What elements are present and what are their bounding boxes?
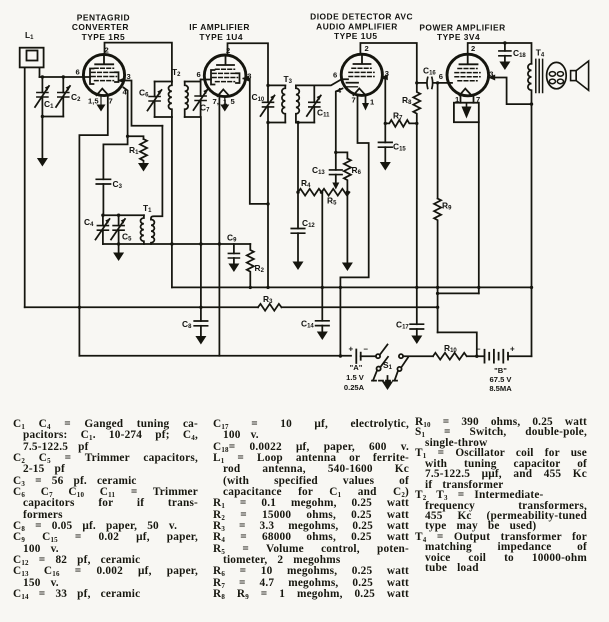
- svg-text:C8: C8: [182, 319, 192, 330]
- wire: C17 stem: [416, 329, 418, 336]
- wire: C8 stem: [200, 326, 202, 336]
- label R9: [442, 201, 452, 212]
- ground below C15: [380, 162, 391, 171]
- wire: T2 secondary top rail to V2 pin 6: [185, 80, 211, 82]
- ground below R1: [138, 163, 149, 172]
- svg-text:R6: R6: [352, 165, 362, 176]
- box arrow: [462, 107, 472, 119]
- ground below R5: [342, 263, 353, 272]
- wire: AVC node to R6: [336, 152, 348, 158]
- svg-text:TYPE 1U5: TYPE 1U5: [334, 31, 378, 41]
- svg-text:C5: C5: [122, 232, 132, 243]
- capacitor C11 (trimmer): [307, 85, 322, 122]
- tube V3 grid dashes: [349, 68, 374, 76]
- node: C7 drop crosses oscillator rail: [199, 242, 202, 245]
- oscillator transformer T1 secondary coil: [151, 220, 154, 245]
- svg-text:R1: R1: [129, 145, 139, 156]
- label T2: [172, 67, 181, 78]
- node: C18 tap: [503, 41, 506, 44]
- wire: V4 pin2 riser and rail to T4: [468, 43, 532, 64]
- svg-text:C16: C16: [423, 66, 436, 77]
- svg-text:1: 1: [370, 98, 375, 107]
- node: stub left junction: [436, 292, 439, 295]
- svg-text:C15: C15: [393, 142, 406, 153]
- switch S1 blade 2: [381, 357, 388, 367]
- node: R7 left junction: [384, 122, 387, 125]
- wire: L1 right lead to grid wire: [39, 67, 41, 77]
- svg-text:"A": "A": [350, 363, 363, 372]
- svg-text:CONVERTER: CONVERTER: [72, 22, 129, 32]
- node: right rail on bus A: [530, 286, 533, 289]
- tube V1 grid dashes: [92, 68, 117, 80]
- node: filament return on bus A: [339, 286, 342, 289]
- V4 filament connection box: [454, 103, 479, 123]
- node: C1 top junction: [41, 75, 44, 78]
- capacitor C8: [194, 321, 207, 326]
- label C8: [182, 319, 192, 330]
- tube V2 plate bar: [217, 55, 234, 65]
- switch S1 pole 2 contact 4: [397, 367, 401, 371]
- node: R4 left junction: [296, 191, 299, 194]
- tube V1 plate bar: [95, 55, 113, 65]
- ground below V1: [97, 105, 106, 112]
- label R1: [129, 145, 139, 156]
- tube V3 diode lead: [345, 86, 358, 88]
- node: filament return joins bottom rail: [339, 354, 342, 357]
- wire: V2 filament ground stem: [224, 97, 226, 105]
- wire: ground stub: [118, 244, 120, 253]
- label C3: [113, 179, 123, 190]
- resistor R5 (volume control): [322, 189, 350, 196]
- svg-text:6: 6: [333, 70, 337, 79]
- wire: C14 stem: [321, 326, 323, 332]
- svg-text:6: 6: [439, 72, 443, 81]
- tube V1 pin labels: [76, 45, 131, 105]
- svg-text:"B": "B": [494, 366, 507, 375]
- label R7: [393, 111, 403, 122]
- label C6: [139, 88, 149, 99]
- svg-text:TYPE 1U4: TYPE 1U4: [199, 32, 243, 42]
- node: R7 right junction: [415, 122, 418, 125]
- svg-text:1.5 V: 1.5 V: [346, 373, 365, 382]
- resistor R1: [140, 139, 147, 162]
- switch S1 pole 2 contact 3: [377, 367, 381, 371]
- wire: V3 pin3 to R7: [383, 77, 386, 123]
- svg-text:R7: R7: [393, 111, 403, 122]
- node: T3 primary bottom: [266, 121, 269, 124]
- node: C2 top junction: [62, 75, 65, 78]
- resistor R2: [247, 244, 254, 287]
- transformer T2 primary coil: [168, 82, 171, 118]
- ground below C12: [293, 262, 304, 271]
- tube V4 plate bar: [460, 54, 478, 64]
- parts list column 3: [415, 417, 587, 574]
- bus B continues to R9 line: [282, 306, 438, 308]
- coupling wire with C16 to V4 pin 6: [417, 82, 452, 84]
- ground below C18: [499, 62, 510, 71]
- battery A minus sign: [364, 345, 369, 354]
- label battery B: [489, 366, 512, 393]
- node: R4 R5 junction: [320, 191, 323, 194]
- tube V2 1U4 envelope: [204, 55, 246, 97]
- svg-text:7,: 7,: [213, 97, 219, 106]
- node: C5 top: [117, 214, 120, 217]
- node: C1 bottom junction: [41, 115, 44, 118]
- wire: V2 pin3 to T3 drop: [244, 79, 269, 204]
- node: bus B end: [436, 306, 439, 309]
- wire: C12 stem: [297, 233, 299, 261]
- bottom rail to battery A: [79, 355, 351, 357]
- wire: V4 filament leads into box: [461, 95, 474, 103]
- label C18: [513, 48, 526, 59]
- label C1: [44, 99, 54, 110]
- svg-text:R9: R9: [442, 201, 452, 212]
- capacitor C4 (variable): [96, 215, 111, 244]
- node: C17 line on bus A: [415, 286, 418, 289]
- capacitor C13: [330, 152, 343, 182]
- T4 secondary / voice coil loop: [547, 62, 567, 88]
- svg-text:2: 2: [365, 44, 369, 53]
- arrowhead into V2 pin3: [242, 76, 249, 82]
- wire: stub joining box lead and R9 line: [438, 292, 479, 294]
- tube V3 filament arrow stem: [365, 95, 367, 103]
- capacitor C1 (variable, ganged): [35, 77, 50, 117]
- label R6: [352, 165, 362, 176]
- wire: T3 secondary bottom rail: [296, 122, 314, 124]
- wire: C12 branch below R4 left: [297, 192, 299, 228]
- label C5: [122, 232, 132, 243]
- switch S1 ground stem: [387, 376, 389, 382]
- wire: C1 bottom down to ground: [41, 117, 43, 159]
- svg-text:S1: S1: [383, 360, 393, 371]
- node: C16 junction: [415, 81, 418, 84]
- wire: battery A to switch contact: [361, 355, 376, 357]
- label R5: [327, 196, 337, 207]
- label C17: [396, 320, 409, 331]
- svg-text:0.25A: 0.25A: [344, 383, 365, 392]
- switch S1 link arms: [373, 371, 398, 381]
- wire: T3 secondary top rail to V3 pin 6: [296, 79, 348, 85]
- tube V4 3V4 envelope: [447, 54, 489, 96]
- capacitor C16 plates: [427, 77, 433, 88]
- svg-text:+: +: [510, 345, 515, 354]
- wire: V1 pin3 to T1 secondary feed: [119, 81, 162, 126]
- arrowhead into V4 pin3: [488, 75, 495, 81]
- tube V1 1R5 envelope: [83, 54, 124, 95]
- ground below C9: [228, 264, 239, 273]
- label battery A: [344, 363, 365, 392]
- tube V3 filament chevron: [354, 88, 366, 95]
- tube V3 plate bar: [354, 54, 371, 64]
- svg-text:C10: C10: [252, 92, 265, 103]
- label T3: [284, 74, 293, 85]
- box arrow stem: [466, 104, 468, 110]
- label R8: [402, 95, 412, 106]
- tube V1 filament chevron: [97, 89, 109, 96]
- capacitor C5 (variable): [111, 215, 126, 244]
- wire: L1 left lead down the left rail: [24, 67, 26, 307]
- battery A plates: [356, 350, 360, 364]
- speaker driver: [571, 71, 577, 81]
- capacitor C2 (variable, ganged): [56, 77, 71, 117]
- label R2: [255, 263, 265, 274]
- label T4: [536, 48, 545, 59]
- svg-text:R2: R2: [255, 263, 265, 274]
- node: pin4 junction: [126, 135, 129, 138]
- tube V1 grid bracket left: [90, 69, 94, 85]
- switch S1 blade 1: [380, 345, 388, 355]
- switch S1 dashed link: [372, 380, 398, 382]
- node: AVC junction: [334, 151, 337, 154]
- ground below C1 C2: [37, 158, 48, 167]
- resistor R3: [258, 304, 282, 311]
- node: V2 pin7 drop crosses oscillator rail: [218, 242, 221, 245]
- wire: grid wire to pin 6 of V1: [40, 76, 91, 78]
- wire: switch to R10: [403, 355, 433, 357]
- wire: V1 filament ground stem: [100, 95, 102, 104]
- wire: C15 stem: [384, 147, 386, 162]
- node: step joins battery row: [475, 355, 478, 358]
- tube V3 filament arrow: [362, 103, 369, 111]
- svg-text:C7: C7: [200, 103, 210, 114]
- node: C14 line on bus A: [321, 286, 324, 289]
- svg-text:R4: R4: [301, 178, 311, 189]
- antenna L1 inner loop: [27, 51, 38, 61]
- wire: C15 branch: [384, 123, 386, 142]
- capacitor C9: [228, 244, 239, 264]
- svg-text:6: 6: [197, 70, 201, 79]
- capacitor C18: [499, 43, 511, 62]
- wire: volume junction down to C14: [321, 192, 324, 321]
- wire: C3 to oscillator top rail: [102, 184, 104, 215]
- voice coil turns: [549, 72, 563, 84]
- svg-text:8.5MA: 8.5MA: [489, 384, 512, 393]
- heading: POWER AMPLIFIER TYPE 3V4: [419, 22, 505, 42]
- wire: T2 secondary bottom rail: [185, 116, 201, 118]
- tube V2 grid bracket right: [236, 73, 240, 83]
- svg-text:T3: T3: [284, 74, 293, 85]
- wire: V4 pin3 loop under C18 to T4 bottom: [490, 78, 532, 105]
- wire: T2 primary bottom drop to bus A: [171, 117, 173, 287]
- capacitor C10 (trimmer) on riser line: [261, 95, 276, 116]
- wiper arrow onto R5: [332, 183, 339, 190]
- oscillator transformer T1 primary coil: [140, 215, 143, 244]
- svg-text:2: 2: [471, 44, 475, 53]
- ground below oscillator rail: [113, 253, 124, 262]
- label C16: [423, 66, 436, 77]
- wire: pin4 junction down to C3 branch: [103, 136, 127, 179]
- svg-text:C12: C12: [302, 218, 315, 229]
- tube V4 pin labels: [439, 44, 494, 104]
- wire: V3 pin7 filament return to battery A minus: [340, 96, 368, 356]
- svg-text:IF AMPLIFIER: IF AMPLIFIER: [189, 22, 250, 32]
- svg-text:AUDIO AMPLIFIER: AUDIO AMPLIFIER: [316, 22, 398, 32]
- switch S1 contact 1: [376, 354, 380, 358]
- svg-text:3: 3: [127, 72, 131, 81]
- wire: R8 line down to C17: [416, 123, 418, 324]
- battery B plates: [485, 350, 509, 363]
- wire: R5 right down to ground: [346, 192, 348, 262]
- heading: DIODE DETECTOR AVC AUDIO AMPLIFIER TYPE 1U5: [310, 12, 413, 42]
- wire: V2 pin2 riser and B+ rail to T3: [228, 43, 269, 102]
- svg-text:6: 6: [76, 68, 80, 77]
- svg-text:T1: T1: [143, 203, 152, 214]
- resistor R9: [434, 199, 441, 333]
- wire: T1 secondary top to feed line: [151, 126, 162, 220]
- transformer T2 secondary coil: [185, 82, 188, 118]
- wire: T3 secondary drop to R4: [297, 123, 299, 193]
- tube V2 filament chevron: [218, 89, 230, 96]
- resistor R7: [385, 120, 417, 127]
- svg-text:C9: C9: [227, 233, 237, 244]
- node: T3 primary top: [266, 84, 269, 87]
- wire: C2 bottom to C1 bottom: [42, 116, 63, 118]
- label C11: [317, 108, 330, 119]
- svg-text:–: –: [364, 345, 369, 354]
- node: R9 line on bus A: [436, 286, 439, 289]
- arrowhead into V1 pin3: [118, 78, 125, 84]
- svg-text:DIODE DETECTOR AVC: DIODE DETECTOR AVC: [310, 12, 413, 22]
- battery B plus sign: [510, 345, 515, 354]
- node: bus B left drop junction: [78, 306, 81, 309]
- node: R5 right junction: [346, 191, 349, 194]
- label S1: [383, 360, 393, 371]
- output transformer T4 primary coil: [528, 64, 532, 104]
- svg-text:C17: C17: [396, 320, 409, 331]
- svg-text:5: 5: [231, 97, 236, 106]
- capacitor C17: [410, 324, 423, 329]
- label R3: [263, 294, 273, 305]
- tube V3 diode plate bar: [347, 82, 359, 84]
- tube V3 1U5 envelope: [341, 54, 382, 95]
- resistor R8: [413, 83, 420, 124]
- arrowhead into V3 pin3: [381, 74, 388, 80]
- ground below S1: [382, 382, 393, 391]
- node: C10 line on bus A: [266, 286, 269, 289]
- node: R2 bottom on bus A: [249, 286, 252, 289]
- transformer T3 primary coil: [282, 85, 285, 122]
- tube V4 filament chevron: [460, 89, 472, 96]
- tube V4 grid dashes: [455, 69, 480, 81]
- wire: T2 primary cell bottom rail: [155, 116, 172, 118]
- svg-text:C18: C18: [513, 48, 526, 59]
- wire: R9 line from C16 node down: [437, 83, 439, 199]
- label C13: [312, 165, 325, 176]
- heading: IF AMPLIFIER TYPE 1U4: [189, 22, 250, 42]
- ground below C8: [195, 336, 206, 345]
- svg-text:TYPE 1R5: TYPE 1R5: [82, 32, 126, 42]
- capacitor C3: [96, 179, 110, 184]
- capacitor C12: [291, 229, 304, 234]
- wire: R10 to battery B: [467, 355, 484, 357]
- antenna L1 outer loop: [20, 48, 44, 68]
- capacitor C15: [379, 142, 393, 147]
- label C15: [393, 142, 406, 153]
- svg-text:L1: L1: [25, 30, 34, 41]
- svg-text:C1: C1: [44, 99, 54, 110]
- tube V2 pin labels: [197, 46, 252, 106]
- resistor R4: [298, 189, 322, 196]
- svg-text:C13: C13: [312, 165, 325, 176]
- switch S1 blade 3: [401, 358, 408, 368]
- svg-text:C6: C6: [139, 88, 149, 99]
- label C9: [227, 233, 237, 244]
- svg-text:POWER AMPLIFIER: POWER AMPLIFIER: [419, 22, 505, 32]
- resistor R6: [344, 159, 351, 193]
- node: junction of pin3 drop on C10 line: [266, 202, 269, 205]
- node: C4 top: [101, 214, 104, 217]
- node: T4 bottom junction: [530, 102, 533, 105]
- parts list column 2: [213, 419, 409, 601]
- node: T3 secondary bottom drop: [296, 121, 299, 124]
- wire: V3 pin2 riser and B+ rail down R8 line: [360, 43, 416, 83]
- wire: V1 pin4 lead down: [124, 88, 128, 137]
- bus A horizontal: [172, 286, 532, 288]
- label C14: [301, 319, 314, 330]
- tube V2 grid dashes: [213, 69, 238, 81]
- svg-text:+: +: [349, 345, 354, 354]
- svg-text:1,5: 1,5: [88, 96, 99, 105]
- transformer T3 secondary coil: [296, 85, 299, 122]
- label R10: [444, 343, 457, 354]
- capacitor C7 (trimmer): [194, 80, 209, 118]
- battery A plus sign: [349, 345, 354, 354]
- svg-text:R8: R8: [402, 95, 412, 106]
- wire: junction to R1: [128, 136, 144, 139]
- node: R9 tap on pin6 wire: [436, 81, 439, 84]
- svg-text:T4: T4: [536, 48, 545, 59]
- svg-text:C14: C14: [301, 319, 314, 330]
- node: ground stub on bottom rail: [117, 242, 120, 245]
- svg-text:C11: C11: [317, 108, 330, 119]
- label C7: [200, 103, 210, 114]
- ground below C17: [411, 336, 422, 345]
- svg-text:7: 7: [352, 96, 356, 105]
- wire: box lead down to bus A: [478, 122, 480, 293]
- svg-text:PENTAGRID: PENTAGRID: [77, 12, 130, 22]
- wire: oscillator top rail: [103, 214, 144, 216]
- label T1: [143, 203, 152, 214]
- tube V1 grid bracket right: [115, 72, 119, 82]
- wire: V1 pin7 down and across to left drop: [79, 96, 107, 356]
- svg-text:67.5 V: 67.5 V: [490, 375, 513, 384]
- capacitor C6 (trimmer): [148, 82, 163, 118]
- switch S1 contact 2: [399, 354, 403, 358]
- svg-text:R3: R3: [263, 294, 273, 305]
- parts list column 1: [13, 419, 198, 601]
- wire: C10 line lower half down to bus A: [267, 107, 269, 288]
- wire: T3 primary cell rails: [268, 85, 285, 122]
- label R4: [301, 178, 311, 189]
- wire: V2 pin7 drop to bottom rail: [218, 97, 220, 356]
- svg-text:–: –: [476, 345, 481, 354]
- wire: oscillator bottom rail: [103, 243, 250, 245]
- label C12: [302, 218, 315, 229]
- label C10: [252, 92, 265, 103]
- wire: V1 pin2 riser and B+ rail to T2: [105, 43, 172, 82]
- wire: right rail T4 to battery B plus: [531, 104, 533, 356]
- resistor R10: [433, 353, 467, 360]
- wire: battery B to right rail: [508, 355, 532, 357]
- svg-text:C3: C3: [113, 179, 123, 190]
- speaker horn: [576, 61, 588, 90]
- heading: PENTAGRID CONVERTER TYPE 1R5: [72, 12, 130, 42]
- capacitor C14: [316, 321, 329, 326]
- wire: R9 line step to switch side: [438, 332, 477, 356]
- T4 core lines: [536, 59, 543, 92]
- wire: V3 pin4 drop to AVC node: [336, 89, 343, 153]
- svg-text:TYPE 3V4: TYPE 3V4: [437, 32, 480, 42]
